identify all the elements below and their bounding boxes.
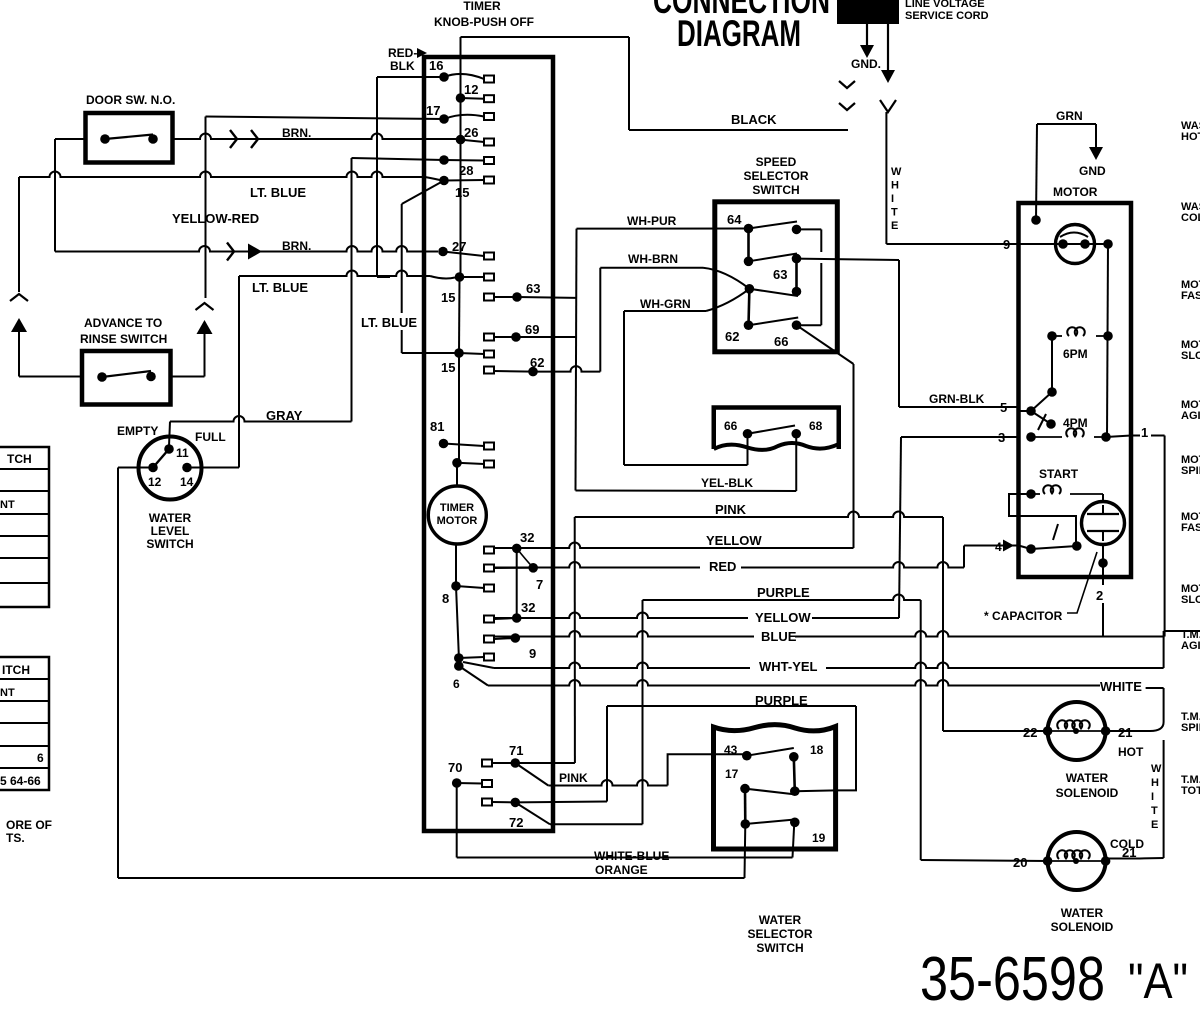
ground arrowhead — [860, 45, 874, 58]
wire left vertical x19 lower — [18, 332, 20, 377]
wire YELLOW bus — [494, 543, 854, 549]
capacitor bottom tick — [1102, 531, 1104, 541]
svg-text:LT. BLUE: LT. BLUE — [361, 315, 417, 330]
tab above timer motor — [484, 461, 494, 468]
wire white bracket down to 21 — [1141, 688, 1164, 731]
svg-text:GND.: GND. — [851, 57, 881, 71]
wire capacitor down segment 1 — [1102, 545, 1104, 586]
svg-text:LEVEL: LEVEL — [151, 524, 190, 538]
wire red corner up x964 — [963, 546, 965, 568]
svg-text:H: H — [891, 180, 899, 192]
sel contact 19 dot — [790, 818, 800, 828]
svg-text:21: 21 — [1118, 725, 1132, 740]
tab 71 — [482, 760, 492, 767]
terminal 27 dot — [438, 247, 448, 257]
wire tab to 9 — [494, 638, 515, 639]
svg-text:22: 22 — [1023, 725, 1037, 740]
svg-text:AGIT: AGIT — [1181, 410, 1200, 422]
wire start to capacitor — [1102, 494, 1104, 502]
wire 71 diagonal — [515, 763, 548, 786]
svg-text:15: 15 — [441, 290, 455, 305]
terminal 81 link to tab — [444, 444, 485, 447]
wire timer top to black corner — [461, 36, 630, 38]
speed sel mid blade — [749, 289, 798, 296]
svg-text:81: 81 — [430, 419, 444, 434]
terminal 15a link to tab — [460, 276, 485, 278]
connector chevron brn 2 — [251, 130, 258, 148]
svg-text:PURPLE: PURPLE — [757, 585, 810, 600]
svg-text:TOT: TOT — [1181, 785, 1200, 797]
svg-text:WHITE: WHITE — [1100, 679, 1142, 694]
wire rinse right lead — [171, 376, 205, 378]
sel contact 17b dot — [741, 819, 751, 829]
svg-text:PINK: PINK — [715, 502, 747, 517]
terminal 15 upper link to tab — [444, 179, 484, 182]
svg-text:8: 8 — [442, 591, 449, 606]
door switch box — [86, 113, 173, 163]
terminal 72 dot — [511, 798, 521, 808]
tab 72 — [482, 799, 492, 806]
svg-text:KNOB-PUSH OFF: KNOB-PUSH OFF — [434, 15, 534, 29]
svg-text:ORANGE: ORANGE — [595, 863, 648, 877]
svg-text:LINE VOLTAGE: LINE VOLTAGE — [905, 0, 985, 10]
svg-text:32: 32 — [521, 600, 535, 615]
speed sel right bus vertical x821 — [797, 228, 822, 230]
motor 6pm-switch vertical — [1051, 336, 1053, 392]
motor start switch dot — [1072, 541, 1082, 551]
door switch left contact dot — [100, 134, 110, 144]
wire YEL-BLK bus — [576, 490, 797, 493]
svg-text:17: 17 — [426, 103, 440, 118]
svg-text:YEL-BLK: YEL-BLK — [701, 476, 753, 490]
wire left loop vertical x118 — [117, 468, 119, 879]
svg-text:MOTOR: MOTOR — [1053, 185, 1098, 199]
svg-text:TIMER: TIMER — [440, 502, 474, 514]
water level blade — [153, 449, 169, 468]
svg-text:SELECTOR: SELECTOR — [743, 169, 808, 183]
sel contact 18b dot — [790, 786, 800, 796]
terminal 27 link to tab — [443, 252, 484, 257]
svg-text:BRN.: BRN. — [282, 239, 311, 253]
svg-text:LT. BLUE: LT. BLUE — [252, 280, 308, 295]
wire grn horizontal — [1037, 123, 1096, 125]
terminal 15b dot — [454, 348, 464, 358]
wire water level 12 lead — [118, 467, 153, 469]
wire tab to 7 — [494, 567, 533, 569]
svg-text:NT: NT — [0, 687, 15, 699]
tab 7 — [484, 565, 494, 572]
svg-text:SERVICE CORD: SERVICE CORD — [905, 10, 989, 22]
svg-text:YELLOW-RED: YELLOW-RED — [172, 211, 259, 226]
svg-text:GRN-BLK: GRN-BLK — [929, 392, 985, 406]
wire door switch left lead — [55, 138, 86, 140]
wire x401 to terminal 15b — [402, 352, 459, 354]
connector chevron brn 1 — [230, 130, 237, 148]
svg-text:3: 3 — [998, 430, 1005, 445]
svg-text:WHITE-BLUE: WHITE-BLUE — [594, 849, 669, 863]
left table 1 frame — [0, 447, 49, 607]
sel blade 43 — [747, 748, 794, 756]
wire white label to bracket — [1146, 687, 1164, 689]
svg-text:WHT-YEL: WHT-YEL — [759, 659, 818, 674]
svg-text:E: E — [1151, 819, 1158, 831]
svg-text:BLK: BLK — [390, 59, 415, 73]
door switch blade — [105, 135, 153, 140]
wire WHITE vertical from connector — [885, 112, 887, 244]
svg-text:66: 66 — [774, 334, 788, 349]
terminal 16 dot — [439, 72, 449, 82]
motor 3 contact dot — [1026, 432, 1036, 442]
wire 71 lead to pink vertical — [515, 762, 575, 764]
motor winding dot a — [1058, 239, 1068, 249]
tab 28 — [484, 157, 494, 164]
svg-text:SWITCH: SWITCH — [146, 537, 193, 551]
wire BRN bus 2 — [55, 246, 438, 251]
terminal 17 dot — [439, 114, 449, 124]
hot solenoid circle — [1048, 702, 1106, 760]
speed sel bottom left dot — [744, 320, 754, 330]
svg-text:YELLOW: YELLOW — [755, 610, 811, 625]
cold solenoid circle — [1048, 832, 1106, 890]
svg-text:SPIN: SPIN — [1181, 465, 1200, 477]
svg-text:SOLENOID: SOLENOID — [1056, 786, 1119, 800]
speed sel blade 2 — [749, 254, 798, 262]
svg-text:PINK: PINK — [559, 771, 588, 785]
wire LT BLUE bus y177 — [19, 172, 425, 177]
cold solenoid left dot — [1043, 856, 1053, 866]
svg-text:DIAGRAM: DIAGRAM — [677, 13, 801, 54]
wire gray vertical x351 up — [351, 158, 353, 422]
svg-text:66: 66 — [724, 419, 738, 433]
rinse left contact dot — [97, 372, 107, 382]
timer motor circle — [428, 486, 486, 544]
sel contact 43 dot — [742, 751, 752, 761]
wire 69 right to x576 vertical — [516, 336, 576, 338]
wire red to motor 4 — [964, 545, 1019, 547]
terminal 28 dot — [439, 155, 449, 165]
tab 63 — [484, 294, 494, 301]
wire grn gnd stub — [1095, 124, 1097, 148]
svg-text:14: 14 — [180, 475, 194, 489]
wire purple2 right bracket — [836, 706, 856, 790]
svg-text:GRN: GRN — [1056, 109, 1083, 123]
motor right dot 244 — [1103, 239, 1113, 249]
terminal 15 upper dot — [439, 176, 449, 186]
wire yellow-red vertical x205 upper — [205, 117, 207, 299]
wire pink vertical x943 to solenoid 22 — [942, 517, 944, 731]
timer box — [424, 57, 553, 831]
left table 1 row line 4 — [0, 535, 49, 537]
svg-text:YELLOW: YELLOW — [706, 533, 762, 548]
svg-text:6PM: 6PM — [1063, 347, 1088, 361]
left table 2 row line 2 — [0, 700, 49, 702]
speed sel second left dot — [744, 257, 754, 267]
sel vertical 17-17b — [744, 789, 747, 824]
wire tab to 62 dot — [494, 370, 533, 373]
svg-text:WATER: WATER — [1061, 906, 1104, 920]
wire 22 lead — [943, 730, 1048, 732]
connector chevron black 2 — [839, 103, 855, 110]
svg-text:SLOW: SLOW — [1181, 594, 1200, 606]
wire lt blue vertical x401 lower — [401, 330, 403, 353]
purple2 junction from x642 — [642, 600, 644, 824]
speed sel right dot 63 — [792, 254, 802, 264]
motor 5 contact dot — [1026, 406, 1036, 416]
wire x377 stub into 15 bus — [376, 272, 378, 277]
wire 72 diag bus — [550, 823, 643, 825]
svg-text:T: T — [1151, 805, 1158, 817]
wire 72 straight lead — [515, 801, 607, 804]
tab 8 — [484, 585, 494, 592]
svg-text:17: 17 — [725, 767, 739, 781]
terminal 81 dot — [439, 439, 449, 449]
wire lt blue vertical x401 upper — [401, 204, 403, 313]
wire door BRN to timer 26 — [173, 134, 461, 140]
svg-text:18: 18 — [810, 743, 824, 757]
svg-text:GRAY: GRAY — [266, 408, 303, 423]
svg-text:12: 12 — [148, 475, 162, 489]
motor winding dot b — [1080, 239, 1090, 249]
speed sel right vertical 63 — [795, 259, 798, 292]
wire 32a to 7 link — [517, 548, 534, 567]
wire terminal 17 feed from x205 — [206, 117, 445, 120]
svg-text:11: 11 — [176, 446, 189, 460]
speed sel bottom blade — [749, 318, 799, 326]
red-blk pointer arrow — [417, 48, 427, 58]
wire terminal2 to tab — [459, 657, 484, 658]
svg-text:W: W — [891, 166, 902, 178]
svg-text:SOLENOID: SOLENOID — [1051, 920, 1114, 934]
timer internal vertical 32a to 32b — [516, 548, 518, 618]
water level switch circle — [139, 437, 202, 500]
motor switch dot mid — [1046, 419, 1056, 429]
svg-text:FAST: FAST — [1181, 522, 1200, 534]
connector arrow brn2 — [248, 244, 262, 260]
66-68 box torn bottom edge — [714, 443, 839, 450]
left table 2 row line 4 — [0, 745, 49, 747]
wire 72 diagonal — [515, 802, 550, 824]
wire LT BLUE bus 2 — [239, 271, 430, 277]
svg-text:GND: GND — [1079, 164, 1106, 178]
left table 1 row line 5 — [0, 557, 49, 559]
svg-text:68: 68 — [809, 419, 823, 433]
terminal 28 link to tab — [444, 159, 484, 162]
wire x607 vertical 72 riser — [606, 706, 608, 802]
terminal 26 dot — [456, 135, 466, 145]
motor switch blade down — [1031, 411, 1051, 424]
wire speed sel 66 diagonal out — [797, 325, 854, 364]
svg-text:64: 64 — [727, 212, 742, 227]
motor switch blade up — [1031, 392, 1052, 411]
junction dot above timer motor — [452, 458, 462, 468]
terminal 70 dot — [452, 778, 462, 788]
svg-text:19: 19 — [812, 831, 826, 845]
svg-text:SELECTOR: SELECTOR — [747, 927, 812, 941]
tab 12 — [484, 95, 494, 102]
wire terminal 16 feed — [377, 76, 444, 78]
speed sel dot below 63 — [792, 287, 802, 297]
wire WHITE-BLUE bus — [457, 857, 793, 859]
tab 2t — [484, 654, 494, 661]
svg-text:T: T — [891, 207, 898, 219]
wire pink vertical x574 down to 71 — [574, 517, 576, 763]
wire x351 to terminal 28 — [352, 158, 445, 160]
motor start coil — [1031, 493, 1040, 495]
timer internal vertical 8 to terminal 2 — [456, 586, 459, 655]
wire grn vertical to motor — [1036, 124, 1037, 220]
svg-text:AGIT: AGIT — [1181, 640, 1200, 652]
terminal 8 link to tab — [456, 586, 484, 588]
svg-text:6: 6 — [37, 751, 44, 765]
motor 4 contact dot — [1026, 544, 1036, 554]
svg-text:"A": "A" — [1128, 953, 1188, 1009]
svg-text:I: I — [891, 193, 894, 205]
svg-text:ORE OF: ORE OF — [6, 818, 52, 832]
left table 1 row line 6 — [0, 582, 49, 584]
tab 70 — [482, 780, 492, 787]
svg-text:WH-PUR: WH-PUR — [627, 214, 677, 228]
wire tab to 32b — [494, 618, 517, 619]
wire purple vertical x920 to cold solenoid — [920, 600, 922, 860]
wire tab to 69 dot — [494, 336, 516, 338]
wire white vertical right line — [1163, 740, 1165, 858]
wire 62 corner up to WH-BRN — [599, 268, 601, 372]
svg-text:72: 72 — [509, 815, 523, 830]
wire capacitor down segment 2 — [1102, 603, 1104, 637]
wire white to motor 9 — [886, 243, 1018, 245]
motor start tick — [1053, 524, 1058, 540]
wire wht-yel corner up x1163 — [1163, 631, 1165, 668]
connector arrow x19 — [11, 318, 27, 332]
wire grn-blk to motor 5 — [899, 406, 1019, 408]
terminal 8 dot — [451, 581, 461, 591]
motor main winding circle — [1056, 225, 1095, 264]
capacitor leader line — [1067, 552, 1097, 613]
svg-text:WATER: WATER — [759, 913, 802, 927]
wire GRAY bus — [170, 416, 352, 421]
motor right vertical — [1107, 244, 1108, 437]
terminal 69 dot — [511, 332, 521, 342]
svg-text:63: 63 — [526, 281, 540, 296]
left table 2 row line 5 — [0, 767, 49, 769]
svg-text:15: 15 — [441, 360, 455, 375]
wire 19 stub down — [793, 822, 795, 857]
svg-text:COLD: COLD — [1181, 212, 1200, 224]
speed sel mid left dot — [745, 284, 755, 294]
svg-text:WATER: WATER — [149, 511, 192, 525]
ground lead from service cord — [866, 24, 868, 46]
tab 32b — [484, 616, 494, 623]
left table 1 row line 2 — [0, 490, 49, 492]
door switch right contact dot — [148, 134, 158, 144]
svg-text:BLACK: BLACK — [731, 112, 777, 127]
svg-text:NT: NT — [0, 499, 15, 511]
timer internal vertical 15a to 15b — [458, 277, 461, 353]
terminal 15a dot — [455, 272, 465, 282]
tab 81 — [484, 443, 494, 450]
wire 15 diagonal to lt blue vertical — [402, 181, 444, 205]
wire BLACK horizontal — [629, 129, 848, 131]
wire RED bus segment 2 — [741, 562, 964, 568]
wire 20 lead — [921, 860, 1048, 861]
terminal 2 blob — [454, 653, 464, 663]
wire 68 stub down — [795, 434, 797, 491]
connector chevron x19 — [10, 294, 28, 301]
motor winding arc — [1060, 233, 1088, 238]
wire tab to 63 dot — [494, 296, 517, 298]
svg-text:12: 12 — [464, 82, 478, 97]
wire corner down x629 — [628, 37, 630, 130]
svg-text:MOTOR: MOTOR — [437, 515, 478, 527]
wire 66 stub down — [747, 434, 749, 465]
sel contact 17 dot — [740, 784, 750, 794]
wire yellow vertical x853 — [853, 364, 855, 548]
tab 16 — [484, 76, 494, 83]
wire WH-GRN bus — [624, 310, 706, 312]
timer internal vertical 15b down to 81 region — [458, 353, 460, 463]
hot solenoid coil — [1048, 730, 1106, 732]
left table 2 row line 1 — [0, 678, 49, 680]
cold solenoid right dot — [1101, 856, 1111, 866]
wire motor 3 lead — [901, 436, 1019, 438]
terminal 63 dot — [512, 292, 522, 302]
svg-text:63: 63 — [773, 267, 787, 282]
timer internal vertical 26 to 15a — [460, 140, 462, 277]
wire motor 5 entry — [1019, 410, 1032, 412]
wire YELLOW bus 2 segment 2 — [812, 617, 899, 619]
wire PURPLE bus 1 — [643, 595, 921, 601]
svg-text:BLUE: BLUE — [761, 629, 797, 644]
sel blade 17 — [745, 789, 796, 795]
svg-text:4: 4 — [995, 540, 1002, 554]
terminal 70 link to tab — [457, 782, 482, 785]
wire motor 4 entry — [1019, 546, 1032, 550]
cold solenoid coil — [1048, 860, 1106, 862]
speed sel blade 64 — [749, 222, 798, 229]
wire WH-BRN bus — [600, 267, 703, 269]
svg-text:EMPTY: EMPTY — [117, 424, 158, 438]
wire gray corner down to empty — [169, 422, 170, 447]
grn gnd arrowhead — [1089, 147, 1103, 160]
rinse right contact dot — [146, 372, 156, 382]
svg-text:H: H — [1151, 777, 1159, 789]
svg-text:WH-GRN: WH-GRN — [640, 297, 691, 311]
terminal 32a dot — [512, 544, 522, 554]
wire speed sel 63 out to grn-blk — [797, 259, 900, 260]
svg-text:PURPLE: PURPLE — [755, 693, 808, 708]
svg-text:26: 26 — [464, 125, 478, 140]
wire grn-blk vertical x899 — [898, 260, 900, 407]
svg-text:RED-: RED- — [388, 46, 417, 60]
wire x576 vertical — [576, 229, 577, 491]
svg-text:1: 1 — [1141, 425, 1148, 440]
wire RED bus segment 1 — [494, 562, 700, 568]
hot solenoid right dot — [1101, 726, 1111, 736]
motor 6pm left dot — [1047, 331, 1057, 341]
svg-text:START: START — [1039, 467, 1079, 481]
capacitor circle — [1082, 502, 1125, 545]
sel vertical 18a-18b — [794, 757, 795, 791]
svg-text:ADVANCE TO: ADVANCE TO — [84, 316, 162, 330]
svg-text:9: 9 — [529, 646, 536, 661]
speed sel link mid down — [747, 289, 751, 325]
svg-text:E: E — [891, 220, 898, 232]
terminal 32b dot — [512, 613, 522, 623]
tab 15a — [484, 274, 494, 281]
capacitor bottom dot — [1098, 558, 1108, 568]
wire timer motor bottom stub — [455, 544, 457, 586]
speed sel contact 64 dot — [744, 224, 754, 234]
